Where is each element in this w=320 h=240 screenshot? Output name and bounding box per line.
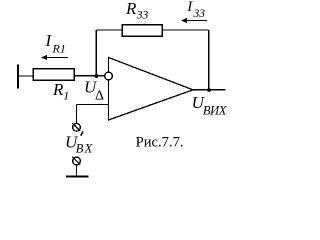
wire: R33 to right corner [162,29,209,31]
svg-text:Δ: Δ [95,89,104,104]
wire: non-inverting input horizontal [77,104,109,106]
current arrow I33 [181,18,207,23]
node: output junction [207,88,211,92]
svg-text:R1: R1 [52,42,66,56]
label UVYH [192,93,228,118]
inverting input bubble [105,72,113,80]
svg-text:33: 33 [136,9,149,21]
wire: feedback vertical right down to output [208,30,210,90]
label I33 [186,0,205,20]
svg-text:1: 1 [63,89,69,103]
ground [66,176,89,178]
wire: feedback vertical left [95,30,97,76]
terminal circle UBX [72,123,80,131]
resistor R1 [33,69,74,81]
wire: feedback top left to R33 [96,29,122,31]
input terminal bar [17,65,19,89]
wire: non-inverting input vertical [76,105,78,124]
current arrow IR1 [41,55,68,60]
svg-text:33: 33 [193,8,206,20]
resistor R33 [122,25,162,37]
svg-text:ВХ: ВХ [76,142,94,156]
label U-delta [84,78,104,104]
svg-text:R: R [52,80,64,99]
svg-text:I: I [186,0,193,15]
op-amp U1 [109,58,194,121]
wire: terminal to R1 [18,75,33,77]
svg-text:Рис.7.7.: Рис.7.7. [136,135,184,151]
terminal circle ground side [72,157,80,165]
label UBX' [65,131,94,155]
label R33 [125,0,149,21]
label R1 [52,80,69,103]
label IR1 [45,31,66,56]
wire: R1 to inverting input [74,75,105,77]
node: junction of R1, R33 and op-amp input [95,74,99,78]
svg-text:ВИХ: ВИХ [203,104,228,118]
wire: terminal to ground [76,165,78,177]
wire: output [192,89,226,91]
svg-text:R: R [125,0,137,18]
